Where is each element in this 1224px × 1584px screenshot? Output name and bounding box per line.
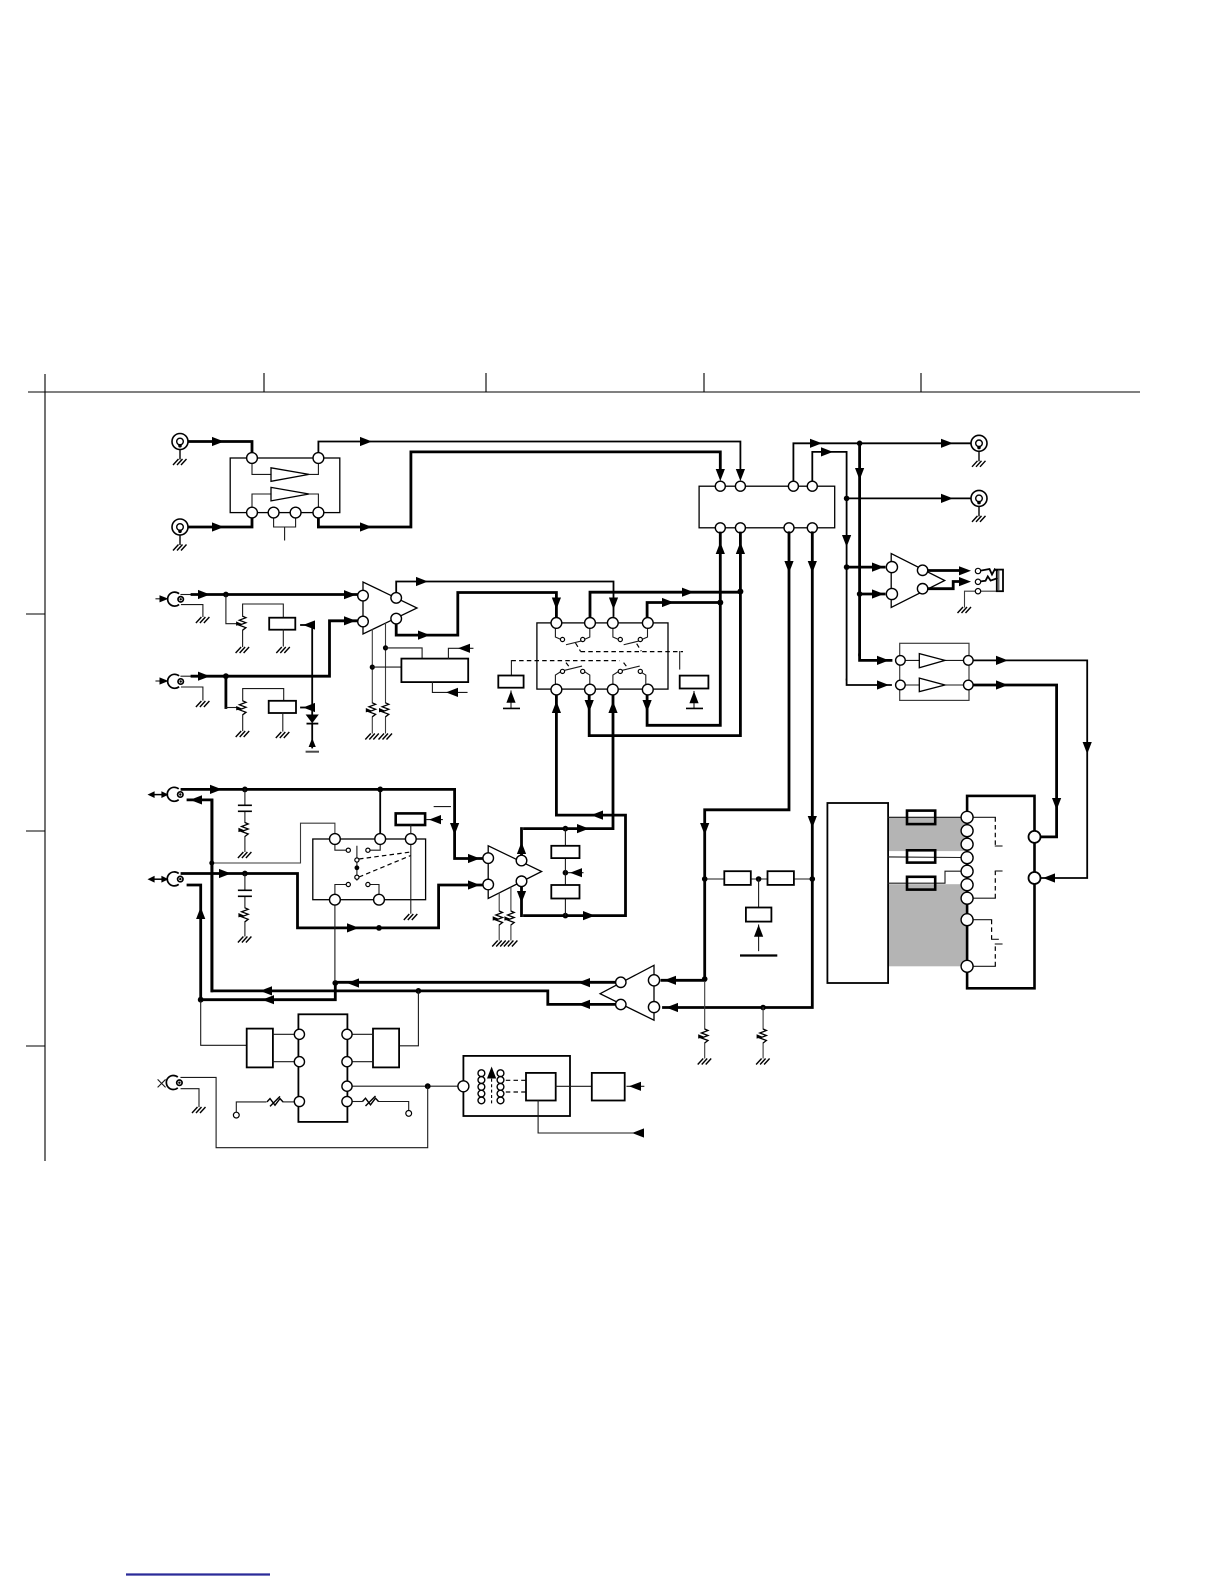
EQ right box wires (352, 1034, 373, 1061)
switch cell contacts top-left (555, 629, 589, 640)
feedback resistor row wires (705, 878, 813, 880)
detector out wire (556, 1085, 592, 1087)
balance pot right (352, 1101, 362, 1103)
input load network L (226, 595, 238, 624)
U1 pins (247, 453, 258, 464)
K4 dashed linkage (359, 852, 411, 859)
line-in jack R arrow (156, 680, 163, 682)
J4 riser to phono block (201, 1000, 247, 1046)
node between resistors (756, 876, 762, 882)
K4 pins (330, 834, 341, 845)
tape switch return line (gray) (212, 823, 335, 863)
drive IC white box (827, 803, 888, 983)
U2 pins (358, 590, 369, 601)
RCA jack J1 CD-L (172, 434, 188, 466)
relay coil K3 drive arrow (758, 925, 760, 951)
headphone jack spring tip (981, 569, 997, 575)
buffer A1 triangle (271, 468, 309, 482)
dashed linkage lower (511, 660, 619, 662)
U4 triangle (488, 846, 541, 899)
gray region lower (889, 884, 968, 966)
U3 pins (896, 656, 906, 666)
amp output L wire (to tape/line return bus) (335, 981, 615, 984)
RCA jack J2 CD-R (172, 519, 188, 551)
node bleeders to ground (760, 1005, 766, 1011)
EQ center IC box (298, 1014, 347, 1122)
switch pin2 top to selector riser (590, 592, 740, 618)
amp L output node to monitor riser (332, 980, 338, 986)
switch pin1 bottom loop from tape monitor (525, 695, 626, 916)
tape jack J3 arrows (148, 791, 169, 798)
mute ctrl supply arrow (311, 724, 313, 748)
output relay block (967, 796, 1034, 988)
comparator box (592, 1073, 625, 1101)
monitor switch box K4 (313, 839, 426, 900)
wire bus into line buffer U3 (860, 655, 891, 661)
EQ pins (294, 1029, 304, 1039)
U4 out2 down (520, 886, 523, 915)
feedback resistor Ra (724, 871, 751, 885)
K4 pole line (356, 846, 358, 880)
U2 bias drop 1 (371, 630, 373, 733)
wire U1 out L (thin, to selector pin) (318, 442, 740, 472)
border frame top rule (26, 373, 1140, 1161)
U4 out1 up (520, 829, 523, 856)
EQ right box (373, 1029, 399, 1068)
tape out jack J3 line to buffer U4 (182, 789, 482, 858)
tape jack J4 arrows (148, 876, 169, 883)
relay coil K3 (758, 879, 760, 908)
U3 box (900, 643, 969, 700)
U3 buffer 2 (906, 684, 964, 686)
wire U1 out R (thick, to selector pin) (318, 452, 720, 527)
riser to selector bottom pin 1 (647, 533, 720, 725)
buffer A1 input wire (252, 462, 271, 474)
wire tap to headphone amp - (860, 593, 884, 596)
wire main monitor bus (thick vertical) (858, 443, 861, 655)
riser to selector bottom pin 2 (589, 533, 740, 736)
switch pins (551, 618, 562, 629)
emitter resistor R2 (907, 850, 935, 862)
transformer left pin (458, 1081, 469, 1092)
wire line-in R to U2 via riser (181, 675, 194, 677)
relay coil K1 (498, 676, 523, 688)
relay block pins column (961, 811, 973, 823)
buffer A2 output wire (309, 494, 318, 508)
buffer A2 triangle (271, 487, 309, 501)
dashed linkage upper (581, 651, 683, 653)
relay contact 1 (973, 816, 995, 818)
headphone amp output wire L (928, 569, 964, 572)
mute FET box L (269, 618, 295, 630)
comparator ctrl arrow (627, 1085, 644, 1087)
relay contact 4 (973, 965, 995, 967)
U2 bias drop 2 (385, 623, 387, 733)
selector IC box (699, 486, 835, 528)
line-in jack L (168, 592, 184, 606)
transformer core dashed with arrow (491, 1068, 493, 1105)
wire to R block 2 (888, 856, 961, 859)
muting box ctrl stub top (448, 648, 473, 658)
muting box ctrl stub bottom (432, 682, 467, 692)
J4 return riser (188, 885, 201, 1000)
headphone amp triangle (891, 554, 945, 608)
detector bottom ctrl (538, 1101, 640, 1134)
line-in jack R ground leg (182, 687, 203, 700)
EQ left box (247, 1029, 273, 1068)
op-amp U1 box (CD buffer) (230, 458, 340, 513)
K4 drive ctrl arrow (427, 819, 442, 821)
U3 buffer 1 (906, 659, 964, 661)
amp triangle (600, 965, 654, 1020)
wire U1 bias pins to stub (274, 516, 296, 540)
line-in jack L ground leg (182, 605, 203, 617)
wire to R block 1 (888, 816, 961, 818)
U2 triangle (363, 582, 417, 634)
wire REC-R jack feed (847, 497, 971, 499)
mute FET box R (269, 701, 296, 713)
tape jack J4 (167, 872, 183, 886)
amp output R wire with jog (212, 800, 616, 1004)
RCA jack REC-R (971, 490, 987, 522)
input RC network J3 (244, 789, 246, 851)
headphone jack ground (958, 607, 972, 613)
RCA jack REC-L (971, 435, 987, 467)
transformer windings (478, 1070, 504, 1104)
U3 out R thick (973, 685, 1057, 837)
wire from selector pin down right branch (664, 533, 813, 1008)
headphone amp pins (886, 562, 897, 573)
U2 out 2 thick (to switch pin 1) (396, 593, 556, 636)
K4 drive box (396, 813, 425, 825)
wire CD-R jack to U1 pin (188, 516, 252, 527)
emitter resistor R3 (907, 877, 935, 890)
footer blue rule (126, 1573, 270, 1575)
amp pins (648, 975, 659, 986)
rec level resistor chain (563, 826, 569, 832)
EQ out to transformer (352, 1085, 458, 1087)
K4 stems (335, 844, 380, 895)
wire selector pin to REC-L jack (793, 443, 971, 481)
input RC network J4 (244, 874, 246, 937)
mute ctrl line L (301, 624, 312, 626)
switch box (537, 623, 668, 689)
input load network R (224, 676, 227, 707)
U3 out L (to main block pin via right drop) (973, 660, 1087, 878)
wire line-in L to U2 (181, 594, 194, 596)
node on REC-L line (857, 441, 863, 447)
headphone jack body (997, 570, 1003, 592)
relay contact 2 (973, 897, 995, 899)
balance pot left (233, 1112, 239, 1118)
mute ctrl diode (311, 708, 313, 715)
detector box (526, 1073, 556, 1101)
mic jack ground leg (181, 1089, 199, 1107)
switch pin4 top to selector riser (647, 603, 720, 619)
line-in jack L arrow (156, 598, 163, 600)
switch cell contacts bottom-left (555, 672, 589, 684)
headphone jack contacts and springs (965, 591, 997, 607)
selector pins (715, 481, 725, 491)
emitter resistor R1 (907, 811, 935, 825)
wire tap to headphone amp + (847, 566, 884, 569)
U2 out 1 thin (to switch pin 3) (396, 582, 613, 617)
amp R output node feed to EQ right box (416, 988, 422, 994)
headphone jack spring ring (981, 576, 997, 581)
U4 bias drops (498, 893, 500, 940)
K4 coil to ground (410, 844, 412, 913)
EQ left box wires (273, 1034, 294, 1061)
muting box (401, 659, 468, 683)
feedback resistor Rb (768, 871, 794, 885)
switch cell contacts top-right (613, 629, 648, 640)
mute ctrl line R (301, 707, 312, 709)
relay contact 3 (973, 919, 992, 921)
mic jack J5 (166, 1076, 182, 1090)
coupling dashes to detector (506, 1080, 526, 1092)
headphone amp output wire R (928, 582, 963, 589)
wire from selector pin down left branch (705, 533, 789, 979)
chain ctrl arrow (568, 872, 583, 874)
switch cell contacts bottom-right (613, 672, 646, 684)
tape return to jack J3 (188, 800, 212, 991)
node to power amp input 1 (702, 976, 708, 982)
buffer A1 output wire (309, 462, 318, 474)
wire CD-L jack to U1 pin (188, 442, 252, 456)
gray region upper (889, 817, 968, 851)
floating label stub (434, 806, 450, 808)
switch pin3 bottom from tape buffer (525, 695, 614, 829)
relay coil K2 (680, 676, 709, 689)
monitor pickoff to switch K4 pin (379, 789, 381, 834)
wire selector pin to REC-R jack via drop (812, 452, 846, 680)
loop from transformer node down to mic jack (181, 1077, 428, 1147)
line-in jack R (168, 674, 184, 688)
tape jack J3 (167, 787, 183, 801)
mic jack X mark (158, 1080, 165, 1087)
transformer box (463, 1056, 570, 1116)
U4 pins (483, 853, 494, 864)
muting control box wires (383, 645, 388, 650)
buffer A2 input wire (252, 494, 271, 508)
wire to R block 3 jog (888, 871, 961, 883)
tape in jack J4 line to buffer U4 (182, 874, 482, 928)
